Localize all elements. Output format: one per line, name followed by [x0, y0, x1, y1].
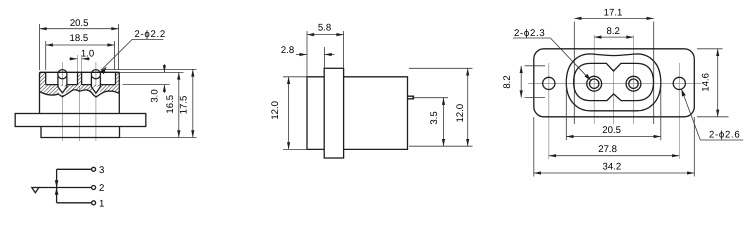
svg-text:17.5: 17.5: [179, 96, 190, 115]
dim 27.8 line: [549, 155, 680, 157]
flange: [324, 68, 343, 158]
body right side: [118, 72, 120, 113]
flange plate: [15, 114, 146, 127]
white teardrop right rivet tip: [92, 86, 101, 95]
svg-text:3.5: 3.5: [429, 111, 440, 124]
dim 1.0 arrows: [69, 58, 77, 60]
pin left hole: [590, 79, 599, 88]
dim 2.8 ext line flange left: [323, 47, 325, 68]
svg-text:2-ϕ2.6: 2-ϕ2.6: [709, 130, 740, 141]
hatch left wall: [40, 72, 120, 97]
pin 2 circle: [92, 186, 96, 190]
figure-8 recess outer contour: [566, 54, 661, 111]
svg-text:2-ϕ2.2: 2-ϕ2.2: [135, 29, 166, 40]
svg-text:2-ϕ2.3: 2-ϕ2.3: [514, 28, 545, 39]
svg-text:17.1: 17.1: [604, 7, 623, 18]
recess floor lines: [46, 84, 116, 86]
front part: [307, 77, 324, 150]
open triangle: [32, 188, 39, 193]
dim 2.8 arrows: [296, 54, 307, 56]
dim 16.5 line: [178, 72, 180, 137]
dim 20.5 line: [40, 28, 119, 30]
svg-text:12.0: 12.0: [270, 101, 281, 120]
vertical centerline left pin: [593, 35, 595, 124]
recess wall inner edges: [46, 72, 116, 84]
pin right outer: [626, 76, 641, 91]
svg-text:16.5: 16.5: [165, 95, 176, 114]
dim 20.5 extension lines: [40, 24, 119, 70]
svg-text:1: 1: [99, 198, 104, 209]
dim 3.0 extension (floor): [123, 84, 170, 86]
horizontal centerline: [528, 83, 701, 85]
dim 14.6 ext lines: [697, 49, 729, 117]
vertical centerline figure-8 middle: [613, 69, 615, 124]
body left side: [39, 72, 41, 113]
pin 3 line: [57, 168, 92, 170]
hatch center wall: [78, 72, 82, 84]
dim 3.5 line: [443, 98, 445, 147]
ext line pin top (17.5): [101, 68, 197, 70]
dim 18.5 extension lines: [46, 41, 115, 70]
body top edge: [40, 71, 120, 73]
svg-text:2: 2: [99, 183, 104, 194]
dim 20.5 line (face): [566, 136, 661, 138]
bus vertical line: [56, 169, 58, 203]
pin 2 line: [39, 187, 92, 189]
svg-text:1.0: 1.0: [81, 49, 94, 60]
dim 17.1 line: [574, 17, 653, 19]
ext line bottom right: [409, 145, 473, 147]
svg-text:18.5: 18.5: [70, 33, 89, 44]
dim 12.0 left line: [288, 77, 290, 150]
dim 17.1 ext lines: [574, 22, 653, 125]
svg-text:12.0: 12.0: [455, 104, 466, 123]
ext line flange top right: [409, 67, 473, 69]
arrow down to junction: [55, 180, 59, 187]
dim 17.5 line: [192, 69, 194, 137]
pin left outer: [587, 76, 602, 91]
ext line terminal: [412, 97, 448, 99]
dim 34.2 line: [534, 172, 695, 174]
lower body: [41, 127, 120, 138]
mounting hole left: [543, 77, 555, 89]
svg-text:20.5: 20.5: [602, 125, 621, 136]
main body: [344, 77, 408, 150]
dim 5.8 ext lines: [307, 31, 344, 77]
vertical centerline left hole: [548, 63, 550, 159]
rivet right head: [91, 70, 100, 79]
ext line bottom: [120, 137, 197, 139]
dim 14.6 line: [717, 49, 719, 117]
dim 18.5 line: [46, 44, 115, 46]
svg-text:2.8: 2.8: [281, 45, 294, 56]
pin 1 circle: [92, 201, 96, 205]
dim 3.0 line: [163, 64, 165, 72]
svg-text:8.2: 8.2: [607, 26, 620, 37]
dim 8.2 top line: [594, 36, 633, 38]
terminal pin: [408, 96, 414, 99]
svg-text:20.5: 20.5: [70, 18, 89, 29]
dim 12.0 right line: [467, 68, 469, 146]
svg-text:14.6: 14.6: [700, 73, 711, 92]
svg-text:27.8: 27.8: [598, 144, 617, 155]
svg-text:34.2: 34.2: [603, 162, 622, 173]
centerline left pin: [61, 62, 63, 141]
svg-text:3.0: 3.0: [149, 89, 160, 102]
centerline pair for 1.0: [78, 55, 82, 72]
dim 12.0 left ext lines: [283, 77, 307, 150]
callout 2-phi2.3 leader: [513, 38, 590, 79]
body centerline: [78, 86, 80, 141]
ext line body top (16.5): [119, 71, 183, 73]
outer flange roundrect: [534, 49, 695, 117]
rivet left head: [58, 70, 67, 79]
svg-text:8.2: 8.2: [502, 75, 513, 88]
callout 2-phi2.6 leader: [681, 89, 743, 140]
figure-8 recess inner contour: [574, 63, 654, 100]
rivet left shaft: [58, 77, 67, 93]
callout 2-phi2.2 leader: [102, 39, 164, 69]
dim 8.2 left ext lines: [525, 66, 545, 98]
dim 5.8 line: [307, 34, 344, 36]
pin 1 line: [57, 202, 92, 204]
rivet right shaft: [91, 77, 100, 94]
pin 3 circle: [92, 167, 96, 171]
svg-text:3: 3: [99, 165, 104, 176]
centerline right pin: [95, 62, 97, 141]
vertical centerline right pin: [633, 35, 635, 124]
mounting hole right: [673, 77, 685, 89]
dim 20.5 ext lines: [566, 78, 661, 140]
wavy break line: [40, 90, 120, 97]
dim 34.2 ext lines: [534, 117, 695, 177]
vertical centerline right hole: [678, 63, 680, 159]
dim 8.2 left line: [520, 66, 522, 98]
white teardrop left rivet tip: [58, 86, 67, 95]
arrow up to junction: [55, 188, 59, 195]
svg-text:5.8: 5.8: [318, 23, 331, 34]
pin right hole: [629, 79, 638, 88]
